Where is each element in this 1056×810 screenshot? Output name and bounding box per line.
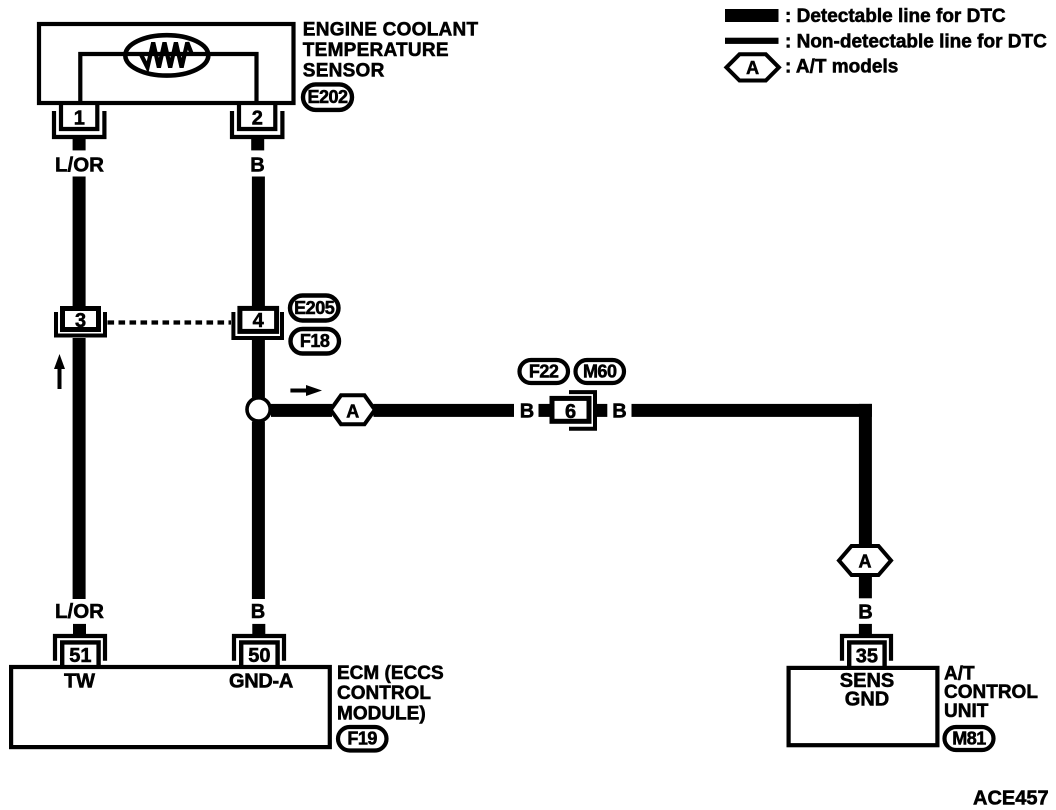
connector label oval F18 [291,329,340,354]
svg-text:51: 51 [69,645,91,667]
svg-text:: Detectable line for DTC: : Detectable line for DTC [785,6,1006,27]
wire junction to hexagon [271,404,332,417]
svg-text:M60: M60 [583,362,617,382]
svg-text:SENSOR: SENSOR [303,60,385,81]
svg-text:F19: F19 [347,729,377,749]
A/T control unit box [789,668,938,745]
connector 51 bracket [55,636,105,661]
wire stub after connector 6 [596,404,607,417]
hexagon A (A/T models, on vertical wire) [839,546,891,575]
connector label oval E202 [303,84,352,110]
wire right vertical lower [252,422,265,600]
svg-text:ACE457: ACE457 [973,788,1049,810]
connector 4 box [240,308,277,332]
connector 4 bracket [233,312,282,338]
connector 50 box [241,642,277,667]
wire stub below pin 1 [73,139,86,150]
wire hexagon to B label [374,404,515,417]
wire right vertical down [859,404,872,547]
connector 35 box [849,642,884,667]
flow arrow up (left wire) [54,354,65,389]
connector label oval M60 [576,360,625,383]
svg-text:2: 2 [252,107,263,129]
sensor box (ENGINE COOLANT TEMPERATURE SENSOR) [39,24,294,103]
svg-text:B: B [612,401,626,423]
connector label oval M81 [945,727,994,750]
connector 35 bracket [842,636,891,661]
svg-text:UNIT: UNIT [944,701,989,722]
connector label oval E205 [290,296,339,321]
connector 6 box [552,398,589,423]
flow arrow right (to A/T) [290,385,322,396]
wire stub below hexagon [859,575,872,598]
wire stub before connector 6 [539,404,551,417]
svg-text:: Non-detectable line for DTC: : Non-detectable line for DTC [785,32,1047,53]
wire right vertical mid [252,340,265,398]
wire left vertical (L/OR, detectable) [73,177,86,307]
svg-text:6: 6 [565,401,576,423]
svg-text:CONTROL: CONTROL [337,683,431,704]
node junction circle [247,398,270,421]
svg-text:A: A [346,401,359,421]
svg-text:B: B [520,401,534,423]
connector 51 box [62,642,98,667]
svg-text:F22: F22 [529,362,559,382]
thermistor ellipse [125,35,208,75]
svg-text:TW: TW [64,671,95,693]
svg-text:50: 50 [248,645,270,667]
svg-text:: A/T models: : A/T models [785,57,898,78]
svg-text:B: B [250,155,264,177]
resistor zigzag [141,43,192,68]
wire stub above connector 51 [73,624,86,635]
svg-text:ECM (ECCS: ECM (ECCS [337,663,444,684]
legend non-detectable line swatch [725,38,779,44]
dashed jumper wire between 3 and 4 [108,320,232,324]
wire right vertical (B, detectable) [252,177,265,307]
svg-text:A: A [859,552,872,572]
wire stub below pin 2 [251,139,264,150]
svg-text:3: 3 [75,310,86,332]
connector 6 bracket [569,392,595,429]
connector 3 bracket [56,312,105,336]
svg-text:B: B [251,601,265,623]
svg-text:MODULE): MODULE) [337,703,426,724]
svg-text:1: 1 [74,107,85,129]
hexagon A (A/T models, inline horizontal) [331,395,375,424]
svg-text:F18: F18 [300,331,330,351]
svg-text:ENGINE COOLANT: ENGINE COOLANT [303,20,479,41]
svg-text:GND-A: GND-A [229,671,293,693]
connector 50 bracket [234,636,284,661]
connector 3 box [63,309,99,332]
legend detectable line swatch [725,9,779,22]
svg-text:35: 35 [856,646,878,668]
svg-text:B: B [858,602,872,624]
wire left vertical lower [73,338,86,599]
pin 2 bracket [232,111,282,137]
connector label oval F19 [338,727,387,751]
svg-text:CONTROL: CONTROL [944,682,1038,703]
svg-text:E205: E205 [294,298,335,318]
svg-text:GND: GND [845,689,889,711]
svg-text:TEMPERATURE: TEMPERATURE [303,40,449,61]
svg-text:A: A [746,58,759,78]
wire long horizontal to right [632,404,872,417]
ECM box [11,667,330,747]
pin 1 bracket [54,111,104,137]
wire (inside sensor, pin1 up and across) [80,54,256,103]
svg-text:M81: M81 [952,729,986,749]
legend hexagon A/T models [726,54,779,80]
wire stub above connector 35 [859,624,872,635]
svg-text:4: 4 [253,310,265,332]
wire stub above connector 50 [252,624,265,635]
svg-text:L/OR: L/OR [55,154,104,177]
svg-text:L/OR: L/OR [55,600,104,623]
connector label oval F22 [520,360,569,383]
pin 2 box [239,104,275,129]
pin 1 box [61,104,97,129]
svg-text:E202: E202 [307,87,348,107]
